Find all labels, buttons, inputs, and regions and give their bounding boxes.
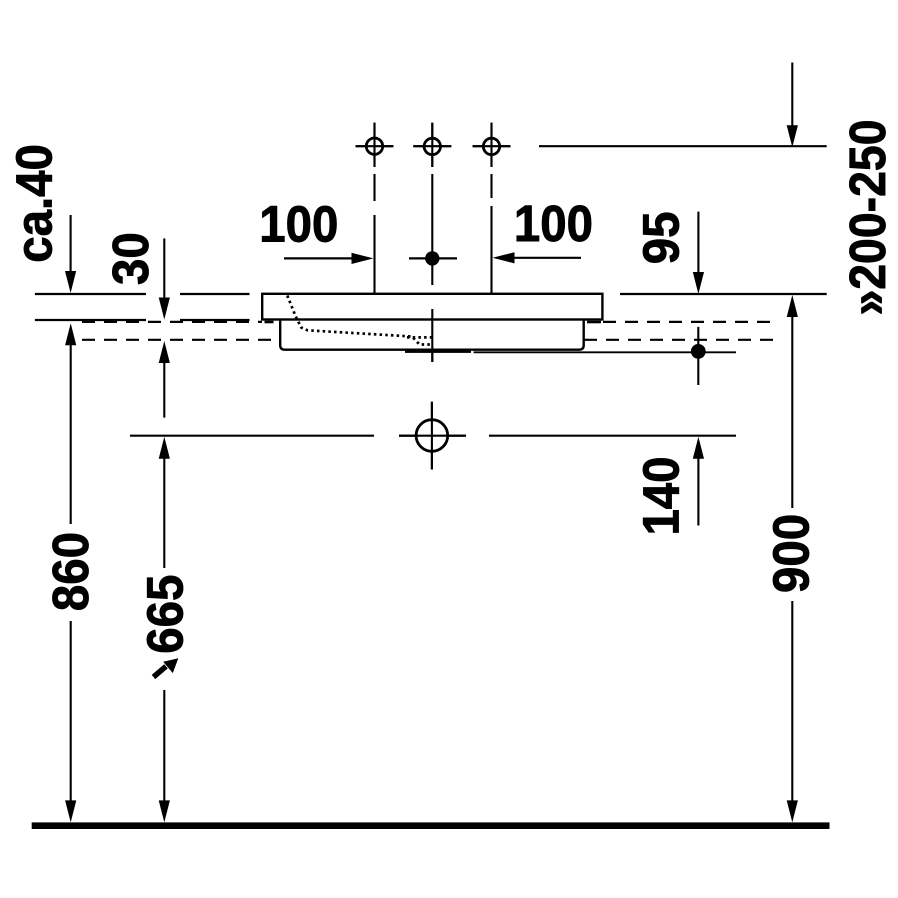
- svg-text:100: 100: [514, 195, 593, 252]
- svg-text:100: 100: [259, 196, 338, 253]
- svg-text:30: 30: [102, 232, 159, 285]
- svg-text:ca.40: ca.40: [6, 144, 63, 263]
- svg-text:900: 900: [763, 514, 820, 593]
- svg-text:95: 95: [633, 212, 690, 265]
- svg-text:»200-250: »200-250: [840, 119, 896, 315]
- svg-text:860: 860: [43, 532, 100, 611]
- svg-text:665: 665: [137, 575, 194, 654]
- svg-text:140: 140: [633, 456, 690, 535]
